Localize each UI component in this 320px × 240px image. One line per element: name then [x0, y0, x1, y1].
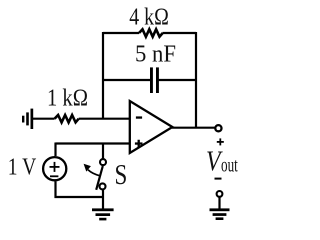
- svg-text:4 kΩ: 4 kΩ: [129, 4, 169, 30]
- svg-text:S: S: [115, 159, 128, 191]
- svg-text:5 nF: 5 nF: [135, 41, 176, 67]
- svg-text:1 kΩ: 1 kΩ: [47, 85, 88, 111]
- svg-text:1 V: 1 V: [8, 155, 37, 181]
- svg-text:out: out: [221, 155, 238, 177]
